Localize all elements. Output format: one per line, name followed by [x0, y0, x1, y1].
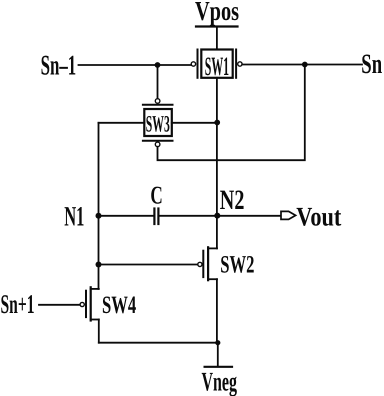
wire Vpos to SW1: [216, 27, 218, 50]
wire bottom rail: [99, 342, 218, 344]
output terminal Vout: [281, 211, 296, 219]
Vneg terminal bar: [205, 366, 232, 368]
transistor SW2: [198, 247, 217, 280]
svg-text:Sn–1: Sn–1: [41, 51, 77, 82]
wire capacitor to N2: [160, 215, 217, 217]
svg-text:C: C: [150, 180, 162, 209]
switch SW1: [191, 50, 242, 82]
transistor SW4: [80, 287, 99, 320]
junction dot SW3/N2 column: [214, 120, 220, 126]
svg-text:SW3: SW3: [146, 111, 170, 137]
wire N1 column lower: [98, 216, 100, 289]
wire SW1 right gate to Sn: [242, 64, 362, 66]
wire SW3 bottom gate to Sn column: [158, 65, 305, 161]
wire Sn-1 to SW1 left gate: [79, 64, 192, 66]
svg-text:Vneg: Vneg: [202, 367, 238, 396]
switch SW3: [143, 99, 173, 147]
junction dot N1 column gate row: [96, 262, 102, 268]
capacitor C: [154, 209, 158, 225]
svg-text:SW2: SW2: [220, 251, 254, 278]
svg-text:Sn: Sn: [361, 49, 382, 80]
wire N2 column SW1 to SW2: [216, 78, 218, 249]
svg-text:Vout: Vout: [296, 202, 341, 232]
svg-text:N1: N1: [64, 202, 84, 233]
node N1 dot: [96, 213, 102, 219]
junction dot Sn-1/SW3: [155, 62, 161, 68]
svg-text:Vpos: Vpos: [195, 0, 239, 26]
svg-text:SW1: SW1: [205, 51, 229, 81]
wire SW2 gate row: [99, 264, 198, 266]
wire SW3 right terminal to N2 column: [172, 122, 217, 124]
junction dot Sn column: [302, 62, 308, 68]
svg-text:Sn+1: Sn+1: [1, 289, 35, 319]
svg-text:SW4: SW4: [102, 292, 137, 319]
svg-text:N2: N2: [220, 185, 245, 216]
wire SW2 source down to rail: [216, 279, 218, 343]
wire rail to Vneg terminal: [217, 343, 219, 367]
Vpos supply rail bar: [196, 25, 238, 27]
wire junction down to SW3 top gate: [157, 65, 159, 99]
wire N1 column upper: [98, 123, 100, 216]
wire SW4 source down to rail: [98, 320, 100, 343]
junction dot bottom rail: [215, 340, 220, 345]
wire Sn+1 to SW4 gate: [39, 304, 80, 306]
wire N1 to capacitor: [99, 215, 154, 217]
wire SW3 left terminal to N1 column: [99, 122, 145, 124]
wire N2 to Vout terminal: [217, 215, 281, 217]
node N2 dot: [214, 213, 220, 219]
